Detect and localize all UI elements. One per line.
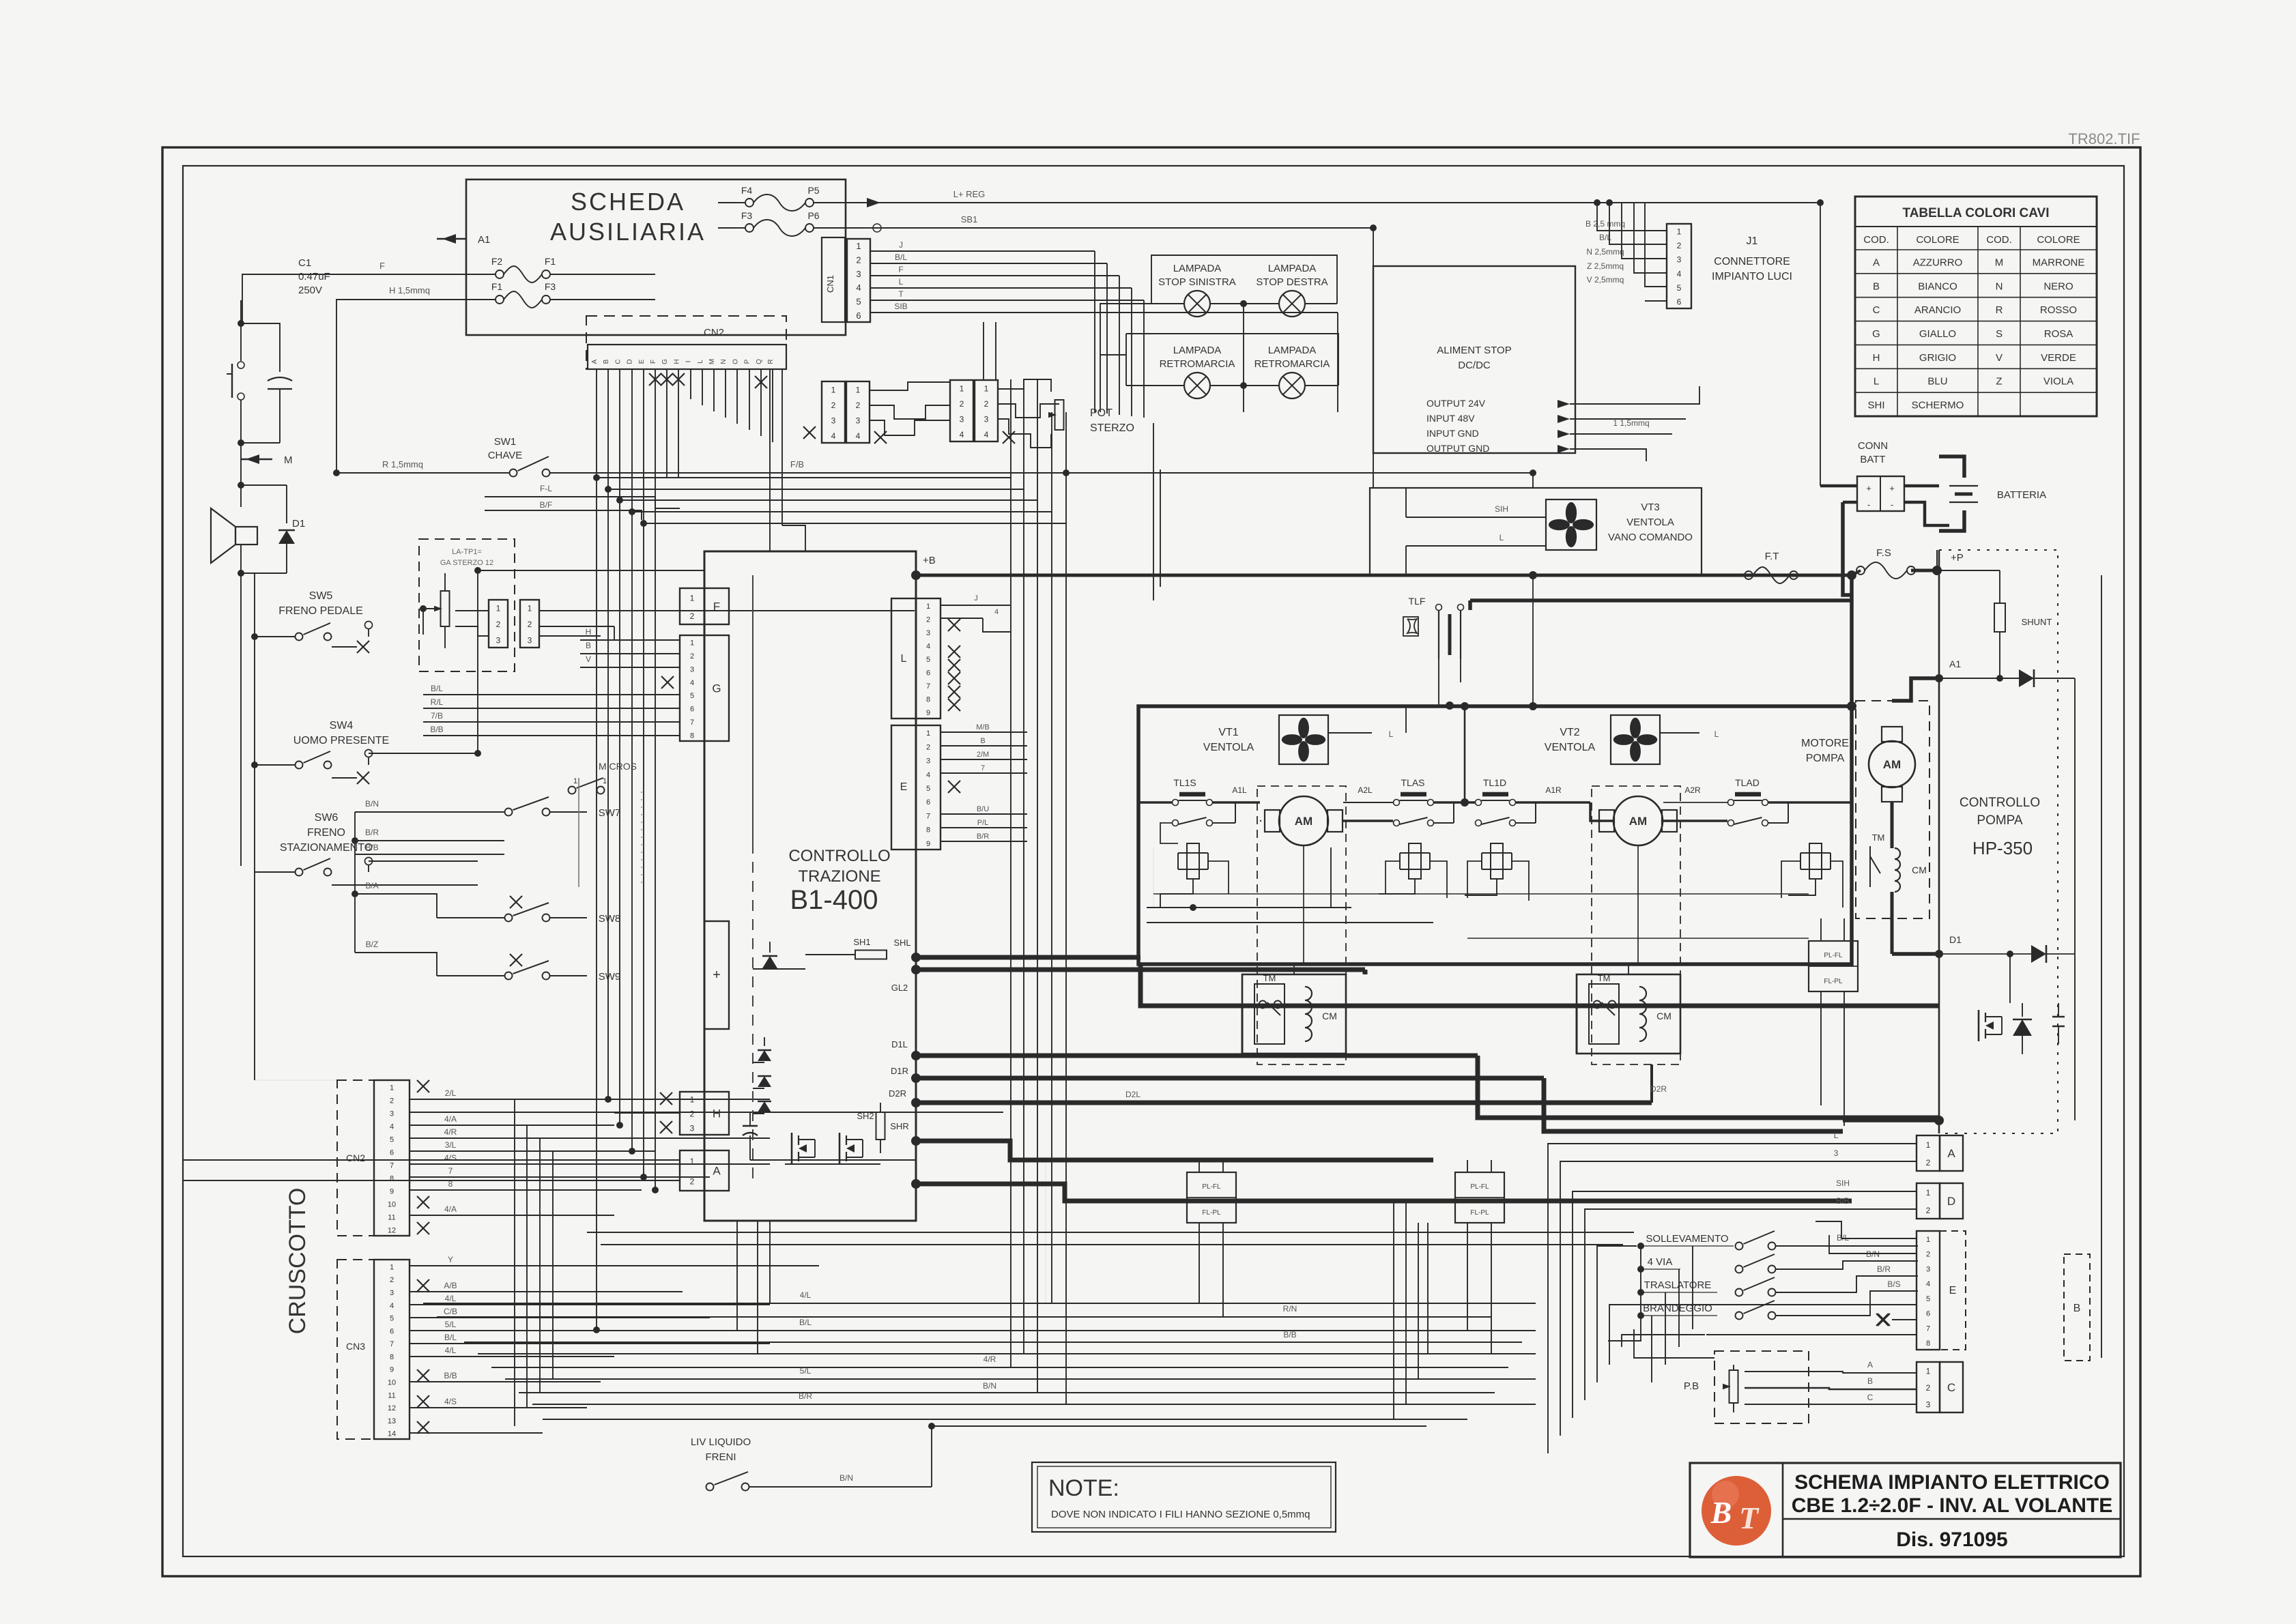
junction bottom controller [911,1179,921,1189]
wire conn batt minus down [1843,502,1857,595]
svg-text:POT: POT [1090,407,1113,419]
wires PL/FL pump [1821,918,1844,1126]
svg-text:2: 2 [496,620,501,629]
svg-text:CRUSCOTTO: CRUSCOTTO [285,1188,311,1335]
svg-text:4: 4 [1677,269,1682,278]
contactor TLF [1436,605,1464,660]
svg-text:9: 9 [390,1366,394,1374]
svg-text:1: 1 [390,1084,394,1092]
svg-text:BATT: BATT [1860,454,1885,465]
svg-text:L: L [1834,1131,1839,1140]
lamp LAMPADA RETROMARCIA left label [1160,345,1235,370]
svg-text:TL1D: TL1D [1483,777,1506,788]
wire motor right down [1637,845,1639,964]
svg-text:TR802.TIF: TR802.TIF [2068,130,2140,147]
svg-text:MOTORE: MOTORE [1801,738,1849,749]
svg-text:M/B: M/B [976,723,990,731]
wire F.S to +P [1911,552,1964,575]
wire P6 to right bus [814,214,1373,232]
svg-text:F4: F4 [741,185,753,196]
wire SW5 right [327,650,328,651]
svg-text:5: 5 [926,656,930,664]
svg-text:BIANCO: BIANCO [1918,280,1957,292]
wire left bus to CN area [255,872,337,1080]
svg-text:E: E [638,359,646,364]
svg-text:CONNETTORE: CONNETTORE [1714,256,1790,267]
fuse F.T [1745,551,1798,583]
svg-text:B/L: B/L [444,1333,457,1342]
svg-text:B/S: B/S [1887,1279,1900,1289]
svg-text:2: 2 [960,399,964,409]
wire lamp feeds left [1100,304,1151,412]
svg-text:6: 6 [1926,1310,1930,1318]
svg-text:L: L [1874,376,1879,388]
svg-text:LAMPADA: LAMPADA [1173,345,1222,356]
wires into connector A br [1604,1131,1917,1161]
pot connector block C [950,380,973,441]
title text SCHEMA IMPIANTO ELETTRICO [1794,1471,2110,1494]
svg-text:+: + [713,968,721,983]
svg-text:7: 7 [690,719,694,727]
svg-text:1: 1 [1926,1366,1931,1376]
svg-text:A2R: A2R [1684,785,1701,795]
svg-text:J: J [899,240,903,250]
svg-text:SH2: SH2 [857,1111,874,1121]
board connector CN2 label [704,327,724,338]
svg-text:2: 2 [856,255,861,265]
label D1R [891,1066,921,1083]
link box PL/FL pump [1809,941,1858,991]
svg-text:AM: AM [1295,815,1312,828]
svg-text:C: C [1873,304,1880,316]
svg-text:D: D [1947,1195,1955,1208]
switch BRANDEGGIO [1736,1279,1919,1320]
stop lamp loop wiring [1151,255,1337,304]
switch SW6 contact stub [365,858,478,873]
no-connect H pins [614,1092,680,1133]
svg-text:4: 4 [856,282,861,293]
svg-text:TRAZIONE: TRAZIONE [798,867,880,886]
svg-text:B/R: B/R [799,1391,812,1401]
svg-text:F1: F1 [491,281,503,292]
wires from E pins [941,723,1027,841]
svg-text:1: 1 [831,385,836,394]
svg-text:D1: D1 [1949,934,1962,945]
wires lamp junction descend [1153,423,1160,600]
svg-text:FL-PL: FL-PL [1470,1209,1489,1217]
svg-text:7: 7 [926,682,930,691]
wire bus left col mid [251,633,258,768]
svg-text:2: 2 [390,1097,394,1105]
switch SW6 label [280,812,373,854]
verticals inside motor box [1153,847,1331,908]
svg-text:1: 1 [496,604,501,613]
pot connector block A [822,381,845,443]
wire motor box internal h2 [1467,938,1809,939]
label D2R [889,1088,921,1107]
pot jog wires D to pot [998,379,1059,448]
svg-text:GA STERZO 12: GA STERZO 12 [440,559,493,567]
note box outer [1032,1462,1336,1532]
retro lamp loop wiring [1126,334,1338,386]
diode D1 [241,485,305,573]
svg-text:AM: AM [1883,758,1901,771]
svg-text:4/R: 4/R [444,1127,457,1137]
svg-text:+P: +P [1951,552,1964,564]
svg-text:G: G [1872,328,1880,340]
svg-text:V: V [1996,352,2003,364]
diode pump bottom [1939,945,2075,963]
svg-text:SCHEMA IMPIANTO ELETTRICO: SCHEMA IMPIANTO ELETTRICO [1794,1471,2110,1494]
svg-text:LAMPADA: LAMPADA [1268,263,1317,274]
wire speaker bus down [240,573,242,866]
svg-text:TABELLA COLORI CAVI: TABELLA COLORI CAVI [1903,206,2050,220]
steering sensor label [440,548,493,567]
steering sensor dashed box [419,539,515,671]
svg-text:11: 11 [388,1214,395,1222]
svg-text:VENTOLA: VENTOLA [1626,517,1674,528]
band wire labels [799,1290,1297,1401]
svg-text:SW1: SW1 [494,436,517,448]
auxiliary board box SCHEDA AUSILIARIA [466,179,846,335]
board connector CN2 dashed outline [586,316,786,369]
svg-text:FL-PL: FL-PL [1824,978,1843,985]
lamp LAMPADA RETROMARCIA right label [1254,345,1330,370]
thick bus SHL [916,955,1140,960]
svg-text:1: 1 [926,729,930,738]
wire from key riser to fuse F1b [336,285,496,473]
svg-text:B/N: B/N [840,1473,853,1483]
svg-text:P/L: P/L [977,819,989,827]
potentiometer accel [1723,1365,1738,1412]
wires inside motor box lower [1147,904,1433,923]
horizontal wire band lower center [423,1303,1536,1419]
svg-text:3: 3 [926,629,930,637]
wires CN2 scheda descend to G [596,478,597,695]
label A2L [1358,785,1373,795]
svg-text:H: H [1873,352,1880,364]
svg-text:Y: Y [448,1255,453,1264]
connector F on controller [680,588,729,624]
svg-text:A: A [1873,257,1880,268]
switch SW5 contact [365,622,373,637]
switch BRANDEGGIO label [1641,1303,1717,1316]
label HP-350 [1972,838,2033,858]
svg-text:4: 4 [984,430,989,439]
svg-text:E: E [1949,1285,1957,1296]
svg-text:COLORE: COLORE [1916,234,1959,246]
fuse F2-F1 [491,256,556,282]
switch SW6 [255,858,478,885]
svg-text:5/L: 5/L [445,1320,457,1329]
fan compartment box [1370,488,1702,575]
svg-text:M: M [1995,257,2004,268]
svg-text:G: G [712,682,721,695]
micros dashed separator [578,778,579,887]
no-connect marks CN3 pins [417,1279,429,1434]
svg-text:9: 9 [390,1188,394,1196]
wire from fuse F1 right [550,274,655,275]
wire TL1D NC to solenoid [1467,861,1529,901]
svg-text:DOVE NON INDICATO I FILI HANNO: DOVE NON INDICATO I FILI HANNO SEZIONE 0… [1051,1509,1310,1520]
svg-text:3: 3 [960,414,964,424]
shunt SH2 [857,1103,885,1153]
svg-text:F.S: F.S [1876,547,1891,559]
connector A on controller [680,1150,729,1191]
relay TM CM left [1242,973,1346,1054]
wires into connector G lower pins [423,684,680,736]
svg-text:SHUNT: SHUNT [2022,617,2052,627]
svg-text:N 2,5mmq: N 2,5mmq [1586,247,1624,257]
brake solenoid mid [1379,843,1430,894]
svg-text:SCHEDA: SCHEDA [571,188,685,216]
label SHR [890,1121,921,1146]
svg-text:V: V [586,654,591,664]
wires to fan VT3 [1406,488,1546,575]
title text CBE [1792,1494,2112,1517]
connector J1 pin box [1667,224,1691,308]
wire from fuse F3 right [550,299,655,300]
svg-text:CM: CM [1912,865,1927,875]
label MOTORE POMPA [1801,738,1849,764]
wires micros feed verticals [351,812,358,953]
svg-text:INPUT GND: INPUT GND [1426,428,1479,439]
svg-text:C: C [614,359,622,364]
wire relay left to bus [1294,964,1628,974]
svg-text:UOMO PRESENTE: UOMO PRESENTE [293,735,389,746]
wires dashboard CN3 to center [410,1255,819,1433]
svg-text:SH1: SH1 [853,937,870,947]
svg-text:R: R [1996,304,2003,316]
connector E on controller [891,725,941,850]
label VT3 VENTOLA VANO COMANDO [1608,502,1693,543]
svg-text:4: 4 [831,431,836,441]
svg-text:RETROMARCIA: RETROMARCIA [1160,358,1235,370]
switch TRASLATORE label [1641,1279,1717,1292]
svg-text:F1: F1 [545,256,556,267]
svg-text:L: L [899,277,904,287]
svg-text:B/L: B/L [895,252,907,262]
svg-text:B/R: B/R [365,828,379,837]
svg-text:M: M [284,454,293,466]
svg-text:B1-400: B1-400 [790,885,878,915]
right side vertical wire pair [2074,678,2076,1120]
svg-text:4: 4 [856,431,861,441]
label GL2 [891,965,921,993]
svg-text:7/B: 7/B [431,711,443,721]
brake solenoid mid2 [1465,843,1512,895]
svg-text:F2: F2 [491,256,503,267]
vertical wire bundle center page [1011,379,1066,1404]
brake solenoid left [1160,843,1208,908]
wires pot to connectors [455,611,489,636]
svg-text:RETROMARCIA: RETROMARCIA [1254,358,1330,370]
fan VT3 symbol [1546,499,1596,550]
wire F/B down to DC/DC [1532,473,1534,488]
motor group dashed box left [1257,786,1346,1064]
relay contact pump [1870,846,1880,887]
svg-text:8: 8 [690,731,694,740]
svg-text:J: J [974,594,978,603]
svg-text:FRENI: FRENI [706,1451,736,1463]
dashboard connector CN3 dashed bracket [337,1260,374,1439]
svg-text:4/A: 4/A [444,1114,457,1124]
thick bus SHR step [916,1141,1433,1160]
wire +P into box [1936,550,1938,570]
svg-text:H 1,5mmq: H 1,5mmq [389,285,430,295]
svg-text:4 VIA: 4 VIA [1648,1256,1673,1268]
wire dcdc top feed [1370,224,1377,488]
svg-text:6: 6 [1677,298,1682,307]
svg-text:STOP DESTRA: STOP DESTRA [1256,276,1328,288]
svg-text:7: 7 [390,1340,394,1348]
svg-text:6: 6 [856,310,861,321]
wire bus drop into box [1529,575,1537,710]
label ALIMENT STOP DC/DC [1437,345,1511,371]
svg-text:+: + [1889,483,1895,493]
svg-text:4/S: 4/S [444,1397,457,1406]
thick lower bus [1140,964,1938,1006]
svg-text:LAMPADA: LAMPADA [1268,345,1317,356]
stop lamp left [1184,291,1210,317]
svg-text:TLAS: TLAS [1401,777,1424,788]
wires motor chain mid2 [1516,802,1613,823]
svg-text:TLF: TLF [1409,596,1426,607]
svg-text:10: 10 [388,1378,396,1387]
svg-text:D: D [627,359,634,364]
svg-text:A1: A1 [478,234,490,246]
switch TRASLATORE [1736,1264,1919,1296]
title text Dis 971095 [1896,1528,2007,1551]
thick stub relay [1242,1006,1577,1054]
svg-text:AZZURRO: AZZURRO [1913,257,1963,268]
relay TM CM right [1577,973,1680,1054]
svg-text:5: 5 [856,297,861,307]
traction controller dashed internal [752,575,754,1184]
svg-text:CHAVE: CHAVE [488,450,523,461]
switch SOLLEVAMENTO [1736,1231,1919,1250]
svg-text:H: H [713,1107,721,1120]
svg-text:12: 12 [388,1227,396,1235]
vertical feeders mid [1045,1160,1046,1303]
svg-text:B/B: B/B [365,843,378,852]
svg-text:FRENO PEDALE: FRENO PEDALE [278,605,363,617]
svg-text:SB1: SB1 [961,214,978,224]
svg-text:4: 4 [960,430,964,439]
svg-text:SHL: SHL [893,938,910,948]
svg-text:B/L: B/L [799,1318,812,1327]
wire P5 to right bus [814,189,1820,207]
svg-text:CN3: CN3 [346,1341,365,1352]
fan VT2 label [1545,727,1596,753]
fan VT1 label [1203,727,1254,753]
svg-text:3: 3 [926,757,930,766]
svg-text:5: 5 [690,692,694,700]
svg-text:3: 3 [1926,1265,1930,1273]
svg-text:250V: 250V [298,285,322,296]
wire SW5 area to controller [478,570,704,753]
svg-text:2: 2 [926,743,930,751]
svg-text:C1: C1 [298,257,311,269]
lamp LAMPADA STOP DESTRA label [1256,263,1328,288]
svg-text:4: 4 [926,642,930,650]
wires motor chain right [1663,802,1852,823]
svg-text:SW9: SW9 [599,971,621,983]
wire pump motor down [1892,892,1939,954]
svg-text:B: B [1710,1495,1732,1530]
svg-text:BATTERIA: BATTERIA [1997,489,2046,501]
micro switch SW9 [355,940,620,983]
svg-text:10: 10 [388,1201,396,1209]
svg-text:R: R [767,359,775,364]
svg-text:1: 1 [960,383,964,393]
switch LIV LIQUIDO FRENI [706,1423,1427,1491]
svg-text:4: 4 [1926,1280,1930,1288]
svg-text:B: B [1867,1376,1873,1386]
svg-text:CM: CM [1656,1011,1671,1021]
svg-text:COD.: COD. [1986,234,2012,246]
switch 4 VIA label [1641,1256,1680,1269]
label POT STERZO [1090,407,1134,434]
no-connect G pin [580,627,680,688]
label SHL [893,938,910,948]
junction dots C1 [238,320,244,446]
plus terminal box on controller [704,921,729,1029]
thick bus +B to right [916,571,1852,579]
svg-text:GL2: GL2 [891,983,908,993]
svg-text:1: 1 [573,777,577,785]
svg-text:PL-FL: PL-FL [1470,1183,1489,1191]
svg-text:5: 5 [926,785,930,793]
contactor TLF label [1409,596,1426,607]
svg-text:F3: F3 [545,281,556,292]
svg-text:Z: Z [1996,376,2002,388]
svg-text:V 2,5mmq: V 2,5mmq [1587,275,1624,285]
wire bus left col low [254,765,255,872]
svg-text:4: 4 [994,608,999,616]
svg-text:1: 1 [690,593,695,603]
junction motor bus [1461,702,1469,807]
svg-text:POMPA: POMPA [1806,753,1845,764]
file name annotation TR802.TIF [2068,130,2140,147]
svg-text:2: 2 [528,620,532,629]
svg-text:B/U: B/U [977,805,989,813]
pump mosfet [1979,1010,2002,1041]
junction dots misc [474,300,1536,574]
connector H on controller [680,1092,729,1135]
svg-text:6: 6 [926,669,930,678]
vertical feeders right of center [1394,1201,1428,1419]
svg-text:C/B: C/B [444,1307,457,1316]
svg-text:P6: P6 [807,210,819,221]
svg-text:1: 1 [926,603,930,611]
micro switch SW8 [355,881,620,925]
wire TL1S NC to solenoid left [1160,823,1229,894]
note text [1051,1509,1310,1520]
micro switch upper aux [569,777,607,794]
svg-text:3: 3 [496,635,501,645]
svg-text:A1L: A1L [1232,785,1247,795]
svg-text:OUTPUT GND: OUTPUT GND [1426,443,1489,454]
svg-text:D2R: D2R [1650,1084,1667,1094]
svg-text:C: C [1947,1381,1955,1394]
svg-text:B/B: B/B [1836,1196,1849,1206]
svg-text:3: 3 [690,1124,695,1133]
horizontal wires to bottom-right nest [587,1232,1634,1245]
svg-text:8: 8 [926,826,930,835]
wires PL/FL left [1199,1160,1223,1317]
cable color table TABELLA COLORI CAVI [1855,197,2097,416]
